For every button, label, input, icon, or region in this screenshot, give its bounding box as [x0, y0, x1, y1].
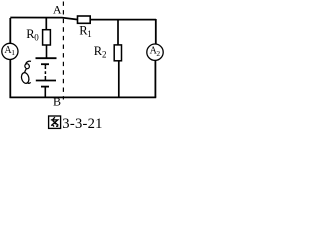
svg-text:1: 1 — [87, 29, 92, 39]
wire left side (bottom corner up to ammeter A1) — [9, 60, 11, 99]
wire R2 branch (R2 down to bottom wire) — [118, 61, 120, 98]
battery cell 1 short plate (-) — [41, 63, 49, 65]
svg-text:1: 1 — [11, 48, 15, 57]
node A dashed line (A-B section line) — [62, 2, 64, 100]
wire top (left section, corner to node A) — [10, 18, 156, 20]
label R1 — [79, 23, 92, 39]
svg-text:B: B — [53, 94, 61, 108]
battery cell 2 short plate (-) — [41, 86, 49, 88]
svg-text:2: 2 — [102, 50, 107, 60]
ammeter A1 — [2, 43, 18, 59]
battery cell 1 long plate (+) — [36, 57, 57, 59]
svg-text:A: A — [53, 3, 62, 17]
wire (dashed link: omitted cells) — [44, 64, 46, 80]
caption: character tu (figure) drawn as strokes — [49, 116, 61, 128]
svg-text:0: 0 — [34, 32, 39, 42]
wire R2 branch (top wire down to R2) — [117, 19, 119, 46]
wire right side (ammeter A2 down to bottom corner) — [154, 60, 156, 97]
resistor R1 — [78, 16, 91, 23]
battery cell 2 long plate (+) — [36, 80, 56, 82]
wire bottom (full width) — [10, 96, 157, 98]
label EMF script-E — [20, 61, 31, 84]
resistor R0 — [43, 30, 51, 45]
wire R0 branch (top wire down to R0) — [45, 18, 47, 31]
wire (battery to bottom wire) — [44, 87, 46, 98]
node A label — [53, 3, 62, 17]
wire left side (ammeter A1 up to top corner) — [9, 18, 11, 43]
wire (R0 to battery plate) — [46, 45, 48, 58]
svg-text:3-3-21: 3-3-21 — [62, 116, 102, 132]
node B label — [53, 94, 61, 108]
wire right side (top corner down to ammeter A2) — [155, 19, 157, 44]
svg-text:2: 2 — [156, 49, 160, 58]
ammeter A2 — [147, 44, 163, 60]
label R2 — [94, 44, 107, 60]
label R0 — [26, 27, 39, 42]
resistor R2 — [114, 45, 121, 61]
caption: figure number 3-3-21 — [62, 116, 102, 132]
